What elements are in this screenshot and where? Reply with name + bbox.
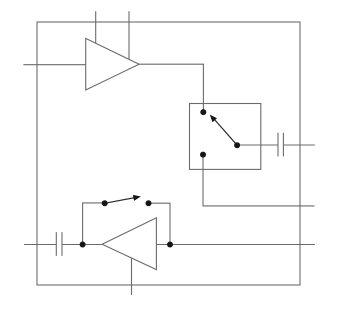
- wire C2 to op-amp U2: [62, 244, 102, 246]
- node S2 left contact: [102, 200, 108, 206]
- node B (C2 / U2 / S2 junction): [80, 242, 86, 248]
- capacitor C1: [278, 133, 283, 157]
- pin top-left (to U1 input): [95, 11, 97, 43]
- pin bottom (from U2): [131, 258, 133, 295]
- pin right (from C1): [283, 144, 314, 146]
- switch S1 arm: [214, 118, 238, 145]
- wire U1 output to switch S1: [139, 64, 203, 112]
- op-amp U2 (inverter, points left): [102, 218, 156, 270]
- node S1 upper contact: [200, 109, 206, 115]
- outer box: [37, 22, 300, 285]
- capacitor C2: [56, 232, 62, 256]
- wire S1 lower contact to right pin: [203, 155, 315, 206]
- pin left (to C2): [24, 244, 56, 246]
- node S1 lower contact: [200, 152, 206, 158]
- wire S1 common to capacitor C1: [237, 144, 278, 146]
- node S2 right contact: [146, 200, 152, 206]
- node S1 common: [234, 142, 240, 148]
- op-amp U1 (buffer, points right): [86, 38, 139, 90]
- wire S2 right contact down to node C: [149, 203, 171, 244]
- switch S2 arm: [105, 198, 136, 204]
- wire node B up to switch S2: [83, 203, 105, 245]
- switch S2 arrowhead: [133, 195, 141, 201]
- wire U2 output to right pin: [156, 244, 315, 246]
- switch S1 arrowhead: [210, 115, 217, 123]
- pin left (to U1 input): [23, 64, 85, 66]
- node C (U2 output junction): [167, 242, 173, 248]
- switch box S1: [190, 104, 261, 170]
- pin top-right (to U1 input): [128, 11, 130, 59]
